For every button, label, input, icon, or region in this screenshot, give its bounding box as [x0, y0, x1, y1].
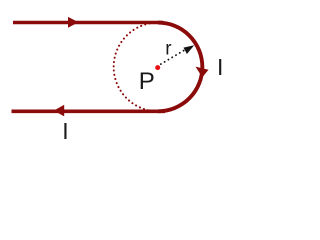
svg-text:r: r — [165, 39, 172, 60]
wire: solid right semicircular bend — [158, 23, 202, 112]
wire: bottom straight segment — [12, 110, 166, 114]
current arrow on bottom wire — [54, 105, 64, 117]
radius arrowhead — [184, 45, 195, 54]
svg-text:I: I — [217, 54, 223, 80]
dotted radius arrow shaft — [161, 50, 185, 64]
center point P (red dot) — [155, 65, 160, 70]
svg-text:P: P — [139, 68, 155, 95]
current arrow on semicircular bend — [196, 67, 209, 78]
wire: top straight segment — [13, 21, 163, 25]
dotted left half of circle — [114, 23, 158, 112]
current arrow on top wire — [68, 17, 79, 28]
svg-text:I: I — [62, 118, 68, 144]
